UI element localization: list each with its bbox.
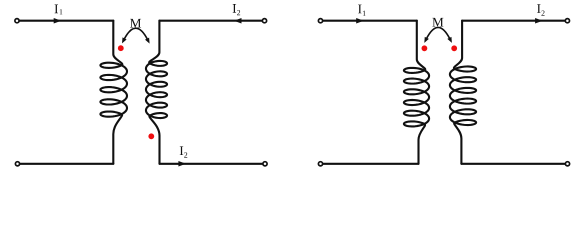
wire: right circuit top-right lead [462,20,565,22]
dot mark: top of winding L3 (right circuit) [422,45,428,51]
inductor L4 (right winding of right transformer) [450,21,476,164]
arrow: current I1 into right circuit (top-left wire) [356,18,364,24]
terminal: left circuit top-left [15,19,19,23]
terminal: right circuit top-left [318,19,322,23]
label I1 (right circuit) [358,5,361,14]
label I1 (left circuit) [55,5,58,14]
arrow: current I1 into left circuit (top-left wire) [54,18,62,24]
arrow: current I2 into left circuit (top-right wire, pointing left) [234,18,242,24]
label I2 (left circuit, bottom right) [180,146,183,155]
wire: left circuit bottom-right lead [160,163,263,165]
terminal: left circuit top-right [262,19,266,23]
wire: left circuit bottom-left lead [20,163,113,165]
terminal: left circuit bottom-right [263,162,267,166]
wire: right circuit bottom-left lead [323,163,419,165]
dot mark: bottom of winding L2 (left circuit) [148,133,154,139]
label I2 (left circuit, top right) [233,4,236,13]
terminal: right circuit top-right [565,19,569,23]
terminal: right circuit bottom-right [565,162,569,166]
terminal: left circuit bottom-left [15,162,19,166]
label M (mutual inductance, right circuit) [432,18,443,27]
dot mark: top of winding L4 (right circuit) [451,45,457,51]
mutual-coupling arrow M (left circuit, double-headed arc) [124,28,148,40]
label I2 (right circuit) [537,4,540,13]
label M (mutual inductance, left circuit) [130,19,141,28]
terminal: right circuit bottom-left [318,162,322,166]
inductor L2 (right winding of left transformer) [146,21,167,164]
wire: right circuit top-left lead [323,20,417,22]
wire: left circuit top-right lead [159,20,262,22]
arrow: current I2 out of right circuit (top-right wire) [535,18,543,24]
wire: left circuit primary loop (top lead, winding L1, bottom lead) [19,20,113,22]
dot mark: top of winding L1 (left circuit) [118,45,124,51]
wire: right circuit bottom-right lead [461,163,565,165]
inductor L3 (left winding of right transformer) [404,21,429,164]
arrow: current I2 out of left circuit (bottom-right wire) [178,161,186,167]
inductor L1 (left winding of left transformer) [100,21,127,164]
mutual-coupling arrow M (right circuit, double-headed arc) [426,27,450,39]
